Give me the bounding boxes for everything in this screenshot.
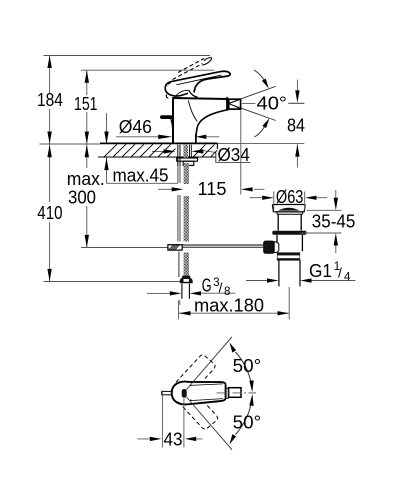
spray cone upper line: [229, 86, 276, 103]
handle top view solid: [162, 382, 241, 405]
spray axis line: [242, 102, 304, 104]
flexible braided hose upper: [184, 163, 189, 184]
svg-text:/: /: [219, 279, 223, 295]
svg-text:Ø34: Ø34: [218, 144, 250, 165]
extension line top (lever raised height): [44, 55, 211, 57]
faucet body elevation: [172, 97, 228, 143]
spray cone upper arc arrow: [254, 70, 264, 80]
lever dashed raised position: [167, 58, 211, 87]
body bottom flange / coupling nut: [277, 252, 300, 260]
svg-text:50°: 50°: [233, 355, 262, 376]
svg-text:410: 410: [37, 202, 62, 223]
rod cross fitting: [168, 245, 182, 250]
dimension 115: [158, 109, 265, 195]
svg-text:G1: G1: [309, 260, 332, 281]
rotation boundary line upper: [187, 337, 233, 390]
right end edge: [225, 385, 227, 398]
svg-text:151: 151: [74, 93, 98, 114]
taper top edge: [189, 382, 226, 385]
taper bottom edge: [189, 398, 226, 404]
base right edge: [195, 134, 197, 144]
neck step: [227, 388, 229, 399]
left pin: [162, 391, 172, 394]
dimension G3/8: [147, 292, 235, 294]
centerline top view: [217, 392, 257, 394]
dimension 184: [49, 56, 51, 145]
extension line lever rest height: [81, 69, 215, 71]
svg-text:300: 300: [68, 186, 96, 207]
dimension G1 1/4: [246, 280, 355, 282]
lever solid: [165, 71, 230, 98]
svg-text:115: 115: [198, 178, 227, 199]
back circle: [172, 382, 189, 405]
inner top line: [190, 384, 223, 386]
dimension Ø46: [116, 136, 219, 138]
deck right edge: [216, 143, 218, 149]
dimension 151: [86, 70, 88, 144]
svg-text:max.45: max.45: [113, 165, 169, 186]
lever neck / dome: [189, 90, 198, 97]
body left edge: [172, 99, 174, 144]
handle top view dashed rotated up 50: [176, 353, 217, 396]
cap top edge: [172, 98, 228, 99]
rotation arc lower: [236, 399, 252, 434]
mounting nut: [183, 161, 194, 165]
svg-text:4: 4: [344, 272, 351, 284]
pop-up waste top cap: [272, 205, 306, 287]
dimension 410: [49, 145, 51, 282]
dimension Ø34 (hole): [152, 151, 251, 163]
body inner curve: [188, 101, 197, 122]
spout underside swoosh: [196, 110, 229, 144]
svg-text:40°: 40°: [257, 92, 288, 113]
threaded shank in deck: [183, 145, 188, 158]
extension line 410 bottom: [44, 281, 180, 283]
dimension 43: [138, 391, 203, 448]
svg-text:/: /: [338, 265, 342, 281]
svg-text:84: 84: [287, 115, 305, 136]
svg-text:Ø46: Ø46: [119, 116, 152, 137]
rotation boundary line lower: [187, 397, 233, 450]
dimension Ø63: [250, 192, 328, 211]
svg-text:Ø63: Ø63: [276, 186, 304, 207]
below-deck mounting washer: [177, 158, 198, 165]
svg-text:184: 184: [37, 89, 63, 110]
svg-text:max.180: max.180: [194, 294, 264, 315]
svg-text:35-45: 35-45: [312, 210, 356, 231]
flexible braided hose lower: [184, 253, 189, 278]
pull-rod knob elevation: [160, 115, 173, 128]
waste body: [277, 235, 302, 251]
shank hose tube in deck: [189, 145, 191, 157]
tail pipe: [279, 260, 300, 286]
aerator: [229, 99, 241, 109]
pull rod through deck: [178, 145, 180, 166]
pivot dark slot: [182, 389, 187, 398]
cap lip: [276, 212, 303, 214]
pull rod below deck: [178, 166, 180, 242]
G3/8 nipple: [182, 284, 190, 299]
spray cone lower arc arrow: [255, 127, 265, 137]
stem block: [229, 388, 241, 398]
pull rod lower wire: [178, 252, 180, 278]
extension line max.300 bottom: [81, 247, 168, 249]
handle top view dashed rotated down 50: [178, 389, 219, 432]
svg-text:43: 43: [164, 429, 183, 450]
dimension 35-45: [300, 190, 342, 253]
dimension 84: [288, 80, 304, 168]
rotation arc upper: [236, 352, 252, 387]
spray cone lower line: [229, 104, 276, 121]
dimension max.300: [86, 145, 88, 248]
centerline dash below nipple: [179, 300, 181, 305]
svg-text:50°: 50°: [233, 411, 262, 432]
pop-up knob: [264, 241, 279, 253]
dimension max.45: [107, 113, 179, 183]
inner bottom line: [190, 399, 223, 401]
deck top line: [40, 143, 101, 145]
deck bottom line: [98, 156, 216, 158]
deck hatching: [104, 144, 217, 157]
G3/8 nut: [180, 276, 193, 284]
spout face: [226, 97, 228, 110]
dimension max.180: [179, 287, 290, 320]
small dots: [190, 384, 192, 386]
rubber washer: [272, 231, 306, 235]
horizontal actuating rod: [182, 245, 263, 247]
neck: [278, 214, 301, 230]
svg-text:G: G: [202, 275, 212, 296]
